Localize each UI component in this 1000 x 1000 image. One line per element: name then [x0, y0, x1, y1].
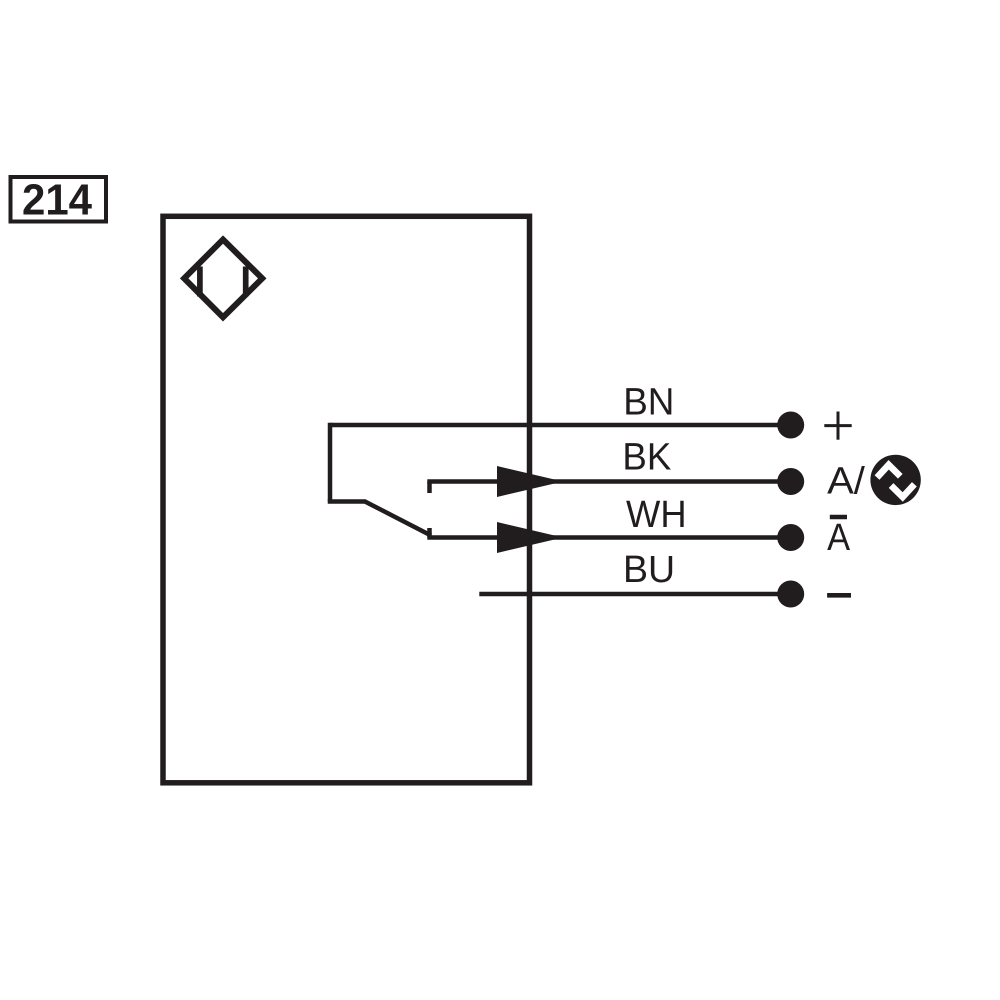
svg-text:A/: A/ — [827, 461, 865, 503]
wire WH horizontal — [427, 535, 790, 540]
terminal dot BU — [777, 581, 804, 608]
wire BN vertical drop (switch common) — [328, 423, 333, 502]
frame label 214 box — [11, 177, 107, 222]
label A/ output — [827, 461, 865, 503]
sensor body rectangle — [163, 216, 530, 783]
svg-text:A: A — [827, 517, 851, 559]
wire BK horizontal — [427, 479, 790, 484]
minus terminal symbol — [827, 593, 851, 598]
antivalent output icon circle — [870, 455, 920, 505]
switch lever — [364, 501, 431, 536]
label BN — [623, 382, 674, 424]
diamond left notch bar — [197, 267, 203, 297]
frame label 214 text — [22, 177, 92, 225]
svg-text:BN: BN — [623, 382, 674, 424]
wire BN horizontal — [330, 423, 790, 428]
diamond right notch bar — [243, 267, 249, 297]
BK contact stub — [427, 482, 432, 494]
label BK — [622, 437, 671, 479]
wire BU horizontal — [479, 592, 790, 597]
wire switch common horizontal stub — [328, 499, 365, 504]
arrow on WH wire — [497, 522, 563, 553]
svg-text:BU: BU — [623, 549, 675, 591]
svg-text:214: 214 — [22, 177, 92, 225]
label BU — [623, 549, 675, 591]
label A-bar output — [827, 517, 851, 559]
terminal dot BK — [777, 468, 804, 495]
WH contact stub — [427, 528, 432, 538]
terminal dot BN — [777, 412, 804, 439]
plus terminal symbol — [824, 412, 851, 440]
svg-text:WH: WH — [626, 494, 687, 536]
svg-text:BK: BK — [622, 437, 671, 479]
terminal dot WH — [777, 524, 804, 551]
label WH — [626, 494, 687, 536]
arrow on BK wire — [497, 466, 563, 497]
sensor symbol diamond — [184, 240, 262, 318]
